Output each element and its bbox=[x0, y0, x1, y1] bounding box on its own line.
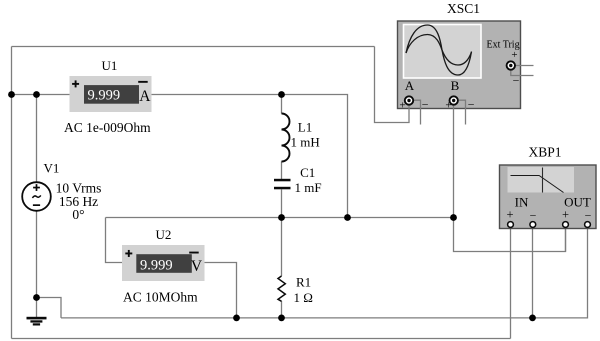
svg-text:C1: C1 bbox=[300, 165, 315, 180]
wire ground jog bbox=[37, 298, 62, 318]
wire XBP IN- lead bbox=[532, 228, 534, 318]
wire U2 left lead bbox=[106, 218, 123, 263]
wire scope B- stub bbox=[459, 100, 466, 124]
wire L1-C1 lead bbox=[281, 162, 283, 180]
svg-text:9.999: 9.999 bbox=[140, 257, 173, 273]
XBP1 OUT+ terminal bbox=[563, 222, 569, 228]
svg-text:A: A bbox=[405, 78, 415, 93]
junction node C1 bottom bbox=[278, 214, 285, 221]
junction node ground bbox=[33, 294, 40, 301]
XSC1 A terminal bbox=[405, 96, 413, 104]
ammeter U1 body bbox=[70, 76, 152, 112]
svg-text:XBP1: XBP1 bbox=[528, 145, 561, 160]
svg-text:0°: 0° bbox=[72, 207, 84, 222]
wire R1 bottom lead bbox=[281, 301, 283, 318]
svg-text:+: + bbox=[506, 208, 513, 222]
junction node L1 top bbox=[278, 91, 285, 98]
wire U1 right to corner bbox=[152, 95, 348, 218]
junction node IN- / bottom bus bbox=[529, 315, 536, 322]
oscilloscope XSC1 body bbox=[398, 21, 521, 109]
svg-text:−: − bbox=[468, 98, 475, 112]
svg-text:1 Ω: 1 Ω bbox=[294, 290, 313, 305]
XSC1 screen waveform trace inner bbox=[406, 35, 472, 66]
wire ext trig stub upper bbox=[516, 65, 534, 67]
wire ext trig stub lower bbox=[511, 70, 534, 76]
XBP1 screen divider bbox=[542, 168, 544, 193]
svg-text:L1: L1 bbox=[298, 120, 312, 135]
svg-text:−: − bbox=[530, 209, 537, 223]
AC source V1 bbox=[22, 182, 51, 211]
svg-text:+: + bbox=[562, 208, 569, 222]
U1 minus bbox=[138, 81, 148, 83]
XSC1 B terminal bbox=[450, 96, 458, 104]
wire C1 bottom lead bbox=[281, 190, 283, 218]
junction node B wire / mid bus bbox=[450, 214, 457, 221]
bode plotter XBP1 body bbox=[500, 165, 597, 229]
svg-text:+: + bbox=[511, 49, 517, 61]
wire U2 right lead bbox=[205, 263, 237, 318]
ground bbox=[27, 317, 47, 326]
XBP1 OUT- terminal bbox=[585, 222, 591, 228]
svg-text:V1: V1 bbox=[44, 161, 60, 176]
voltmeter U2 body bbox=[122, 245, 205, 281]
wire scope A- stub bbox=[414, 100, 421, 124]
svg-text:A: A bbox=[139, 88, 151, 105]
svg-text:9.999: 9.999 bbox=[88, 88, 121, 104]
V1 value labels bbox=[56, 181, 102, 223]
wire L1 top lead bbox=[281, 95, 283, 114]
svg-text:1 mH: 1 mH bbox=[291, 135, 320, 150]
svg-text:R1: R1 bbox=[296, 275, 311, 290]
wire scope A+ path bbox=[375, 47, 410, 123]
wire bottom bus bbox=[12, 338, 511, 340]
svg-text:U1: U1 bbox=[102, 58, 118, 73]
XBP1 IN- terminal bbox=[530, 222, 536, 228]
svg-text:IN: IN bbox=[515, 195, 529, 210]
junction node R1 / bottom bus bbox=[278, 315, 285, 322]
wire XBP OUT+ lead bbox=[565, 228, 567, 252]
wire V1 top lead bbox=[36, 95, 38, 183]
wire XBP IN+ lead bbox=[510, 228, 512, 339]
svg-text:B: B bbox=[451, 78, 460, 93]
U1 plus bbox=[72, 80, 79, 87]
wire U1 left lead bbox=[12, 94, 70, 96]
svg-text:1 mF: 1 mF bbox=[295, 180, 322, 195]
wire C1 node to R1 bbox=[281, 218, 283, 277]
capacitor C1 bbox=[274, 179, 291, 190]
XBP1 IN+ terminal bbox=[508, 222, 514, 228]
svg-text:AC 1e-009Ohm: AC 1e-009Ohm bbox=[64, 120, 151, 135]
wire bottom node bus bbox=[61, 228, 588, 318]
wire V1 bottom lead bbox=[36, 211, 38, 298]
junction node mid bus corner bbox=[344, 214, 351, 221]
svg-text:U2: U2 bbox=[156, 227, 172, 242]
svg-text:V: V bbox=[191, 258, 203, 275]
svg-text:−: − bbox=[585, 209, 592, 223]
wire middle node bus bbox=[106, 217, 454, 219]
inductor L1 bbox=[282, 114, 290, 162]
wire scope B+ vertical bbox=[454, 105, 566, 252]
junction node V1 / U1 bbox=[33, 91, 40, 98]
XSC1 screen waveform trace outer bbox=[406, 25, 472, 75]
U2 plus bbox=[125, 250, 132, 257]
svg-text:−: − bbox=[422, 98, 429, 112]
junction node left bus / U1 bbox=[8, 91, 15, 98]
wire left vertical bbox=[11, 47, 13, 339]
svg-text:−: − bbox=[513, 74, 520, 88]
XBP1 screen response curve bbox=[511, 176, 564, 193]
junction node U2 / bottom bus bbox=[233, 315, 240, 322]
XSC1 ext trig terminal bbox=[507, 61, 515, 69]
svg-text:XSC1: XSC1 bbox=[447, 1, 480, 16]
U2 minus bbox=[189, 252, 199, 254]
wire ground stub bbox=[36, 298, 38, 318]
resistor R1 bbox=[278, 276, 285, 301]
wire top bus bbox=[12, 46, 375, 48]
svg-text:AC 10MOhm: AC 10MOhm bbox=[123, 289, 198, 304]
